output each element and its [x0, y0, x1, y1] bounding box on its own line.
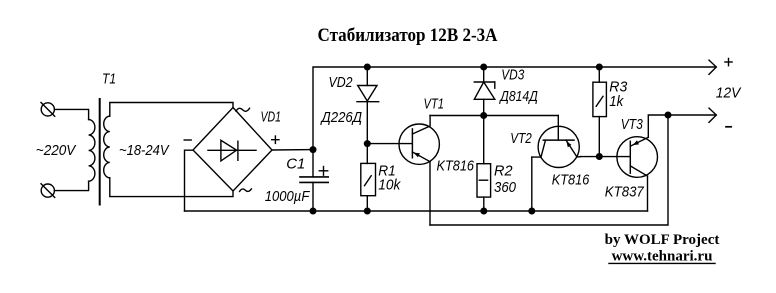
junction: R3 / VT2 emitter / VT3 base [596, 153, 603, 160]
transformer T1 secondary winding [104, 116, 110, 178]
svg-text:VD1: VD1 [261, 109, 282, 126]
svg-text:VT3: VT3 [621, 116, 644, 133]
svg-text:Д226Д: Д226Д [320, 109, 363, 126]
label ~ (bridge AC bottom) [240, 189, 252, 192]
label + (output) [725, 58, 732, 65]
wire: top rail to R3 [598, 67, 600, 82]
svg-text:KT816: KT816 [437, 158, 475, 175]
svg-text:12V: 12V [716, 85, 742, 102]
zener diode VD3 [474, 82, 495, 99]
wire: VT3 emitter to output minus line [648, 115, 716, 137]
wire: VT1 collector to VT2 base [430, 115, 558, 117]
wire: secondary top to bridge AC1 [110, 103, 233, 117]
svg-text:Стабилизатор 12В 2-3А: Стабилизатор 12В 2-3А [318, 26, 499, 46]
junction: bottom rail / VT2 collector [528, 208, 535, 215]
transistor VT1 [399, 116, 439, 165]
wire: top rail to VD2 anode [366, 67, 368, 86]
wire: C1 bottom to bottom rail [312, 182, 314, 211]
svg-text:KT816: KT816 [552, 172, 590, 189]
wire: VT1 emitter down to lower rail [429, 162, 431, 225]
bridge rectifier VD1 [193, 108, 272, 192]
svg-text:10k: 10k [378, 177, 401, 194]
transformer T1 core [99, 99, 101, 205]
output - arrow [709, 108, 716, 122]
junction: top rail / VD3 [480, 64, 487, 71]
svg-text:by WOLF Project: by WOLF Project [605, 232, 720, 248]
diode VD2 [357, 86, 379, 102]
junction: output minus / lower rail [665, 112, 672, 119]
svg-text:1000µF: 1000µF [265, 188, 310, 205]
wire: lower rail to output minus [430, 115, 668, 225]
svg-text:~220V: ~220V [36, 142, 77, 159]
wire: VT2 collector to bottom rail [531, 157, 533, 211]
svg-text:Д814Д: Д814Д [499, 88, 538, 105]
svg-text:www.tehnari.ru: www.tehnari.ru [612, 249, 713, 265]
wire: VT2 emitter to VT3 base [581, 156, 631, 158]
wire: R1 to bottom rail [366, 196, 368, 211]
junction: bottom rail / C1 [310, 208, 317, 215]
transistor VT3 [617, 137, 658, 178]
wire: bridge plus to C1 node [272, 149, 313, 151]
wire: VD2/R1 node to VT1 base [367, 143, 412, 145]
svg-text:R2: R2 [494, 163, 513, 180]
wire: R2 to bottom rail [483, 197, 485, 211]
junction: bottom rail / R1 [364, 208, 371, 215]
terminal X1 (top input) [41, 103, 55, 117]
wire: primary top [54, 109, 88, 119]
junction: top rail / R3 [596, 64, 603, 71]
wire: VD3 anode down to R2 [483, 99, 485, 163]
wire: primary bottom [54, 181, 88, 190]
wire: VT3 collector to bottom rail [647, 176, 649, 211]
terminal X2 (bottom input) [41, 184, 55, 198]
wire: secondary bottom to bridge AC2 [110, 178, 233, 197]
svg-text:KT837: KT837 [605, 184, 645, 201]
junction: VD2 / R1 / VT1 base [364, 140, 371, 147]
credit: www.tehnari.ru [609, 249, 715, 265]
resistor R2 [477, 164, 491, 197]
svg-text:VT2: VT2 [510, 130, 532, 147]
wire: bridge minus to bottom rail [185, 150, 194, 211]
junction: bottom rail / R2 [480, 208, 487, 215]
svg-text:VD2: VD2 [329, 74, 354, 91]
svg-text:VT1: VT1 [424, 96, 445, 113]
svg-text:~18-24V: ~18-24V [119, 142, 170, 159]
wire: R3 bottom to VT3 base node [598, 117, 600, 157]
wire: bottom rail [185, 210, 648, 212]
junction: VD3 / R2 / VT1 collector [480, 112, 487, 119]
svg-text:360: 360 [494, 179, 517, 196]
output + arrow [709, 60, 716, 74]
label - (output) [726, 126, 731, 128]
wire: top rail to VD3 cathode [483, 67, 485, 82]
wire: C1 node up and top rail [313, 67, 716, 177]
label - (bridge output) [184, 139, 191, 141]
capacitor C1 [300, 177, 328, 183]
junction: bridge plus / C1 [310, 146, 317, 153]
transistor VT2 [532, 116, 581, 168]
junction: top rail / VD2 [364, 64, 371, 71]
label + (bridge output) [272, 136, 279, 143]
resistor R1 [361, 163, 376, 195]
wire: VD2 cathode to R1 [366, 102, 368, 164]
transformer T1 primary winding [89, 120, 95, 182]
label ~ (bridge AC top) [236, 108, 250, 111]
resistor R3 [593, 82, 607, 116]
svg-text:VD3: VD3 [501, 67, 525, 84]
svg-text:1k: 1k [609, 93, 624, 110]
svg-text:C1: C1 [286, 156, 305, 173]
label + (C1 polarity) [319, 167, 327, 176]
svg-text:T1: T1 [102, 71, 116, 88]
